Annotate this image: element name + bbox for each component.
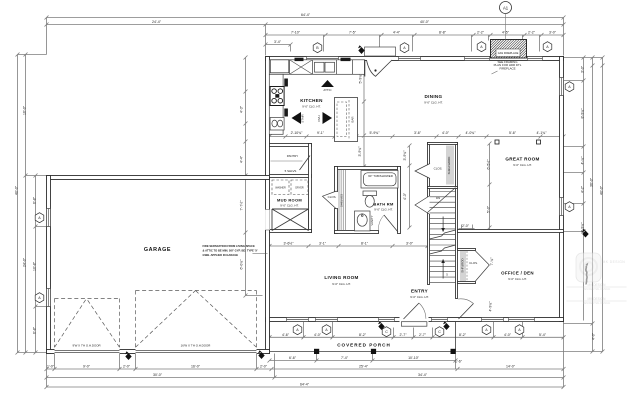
- wall stairs closet north: [428, 143, 458, 145]
- dim row kitchen-greatroom interior: [268, 135, 566, 139]
- svg-text:10'-8": 10'-8": [33, 261, 37, 271]
- dim row 30'-0" 34'-4": [45, 354, 566, 380]
- svg-text:FIREPLACE: FIREPLACE: [499, 66, 515, 70]
- svg-text:OVH: OVH: [317, 115, 321, 121]
- svg-text:GARAGE: GARAGE: [144, 247, 171, 253]
- svg-text:KITCHEN: KITCHEN: [300, 98, 323, 103]
- svg-text:BATH RM: BATH RM: [373, 202, 394, 207]
- kitchen west counter: [269, 74, 283, 134]
- svg-text:2'-7": 2'-7": [400, 333, 408, 337]
- svg-text:GWB. APPLIED IN GARAGE: GWB. APPLIED IN GARAGE: [203, 253, 239, 257]
- svg-text:4'-6": 4'-6": [282, 333, 290, 337]
- svg-text:16'-0": 16'-0": [23, 105, 27, 115]
- svg-text:3'-9¾": 3'-9¾": [403, 150, 407, 161]
- svg-text:MK DESIGN: MK DESIGN: [603, 260, 626, 264]
- dim line top 3'-4": [264, 43, 293, 52]
- svg-text:40'-0": 40'-0": [600, 185, 604, 195]
- base cabinet sink low: [270, 118, 284, 131]
- stairs direction arrow: [442, 217, 444, 279]
- stairs closet shelf strip: [447, 146, 453, 185]
- front door opening: [400, 317, 429, 322]
- window garage west 2: [47, 289, 51, 307]
- section diamond markers: [125, 45, 589, 360]
- window north kitchen: [307, 57, 339, 61]
- entry closet shelf strip: [461, 251, 467, 281]
- window north greatroom: [528, 57, 543, 61]
- svg-text:2'-7": 2'-7": [419, 333, 427, 337]
- svg-text:10'-10": 10'-10": [408, 356, 420, 360]
- svg-text:34'-4": 34'-4": [418, 373, 428, 377]
- bath vanity: [355, 211, 371, 231]
- svg-text:DRYER: DRYER: [295, 187, 304, 190]
- svg-text:1'-6": 1'-6": [455, 360, 463, 364]
- dim line greatroom x489: [488, 142, 492, 232]
- svg-text:40'-0": 40'-0": [15, 185, 19, 195]
- posts great room opening: [495, 140, 499, 144]
- svg-text:4'-4": 4'-4": [240, 155, 244, 163]
- svg-text:4'-3": 4'-3": [403, 192, 407, 200]
- wall bath west lower: [335, 209, 338, 234]
- window south living 2: [316, 318, 338, 322]
- dim line garage interior x245: [244, 56, 263, 298]
- dim line hall x409: [408, 144, 412, 230]
- svg-text:4'-0": 4'-0": [314, 333, 322, 337]
- kitchen range top X box: [290, 60, 313, 75]
- dim row 25'-4" 14'-0": [272, 367, 566, 371]
- svg-text:2'-2": 2'-2": [477, 30, 485, 34]
- fire note leader: [253, 253, 268, 255]
- kitchen island bar: [335, 98, 358, 142]
- svg-text:9'-0" CLG. HT.: 9'-0" CLG. HT.: [302, 105, 321, 109]
- west wall door gap at mudroom: [265, 210, 270, 231]
- garage door dashed outline 9ft: [55, 291, 257, 348]
- front door leaf and swing: [404, 303, 426, 319]
- window south sidelight right: [432, 318, 448, 322]
- svg-text:CLOS.: CLOS.: [328, 195, 337, 199]
- svg-text:40'-0": 40'-0": [420, 20, 430, 24]
- svg-text:COVERED PORCH: COVERED PORCH: [337, 342, 391, 347]
- svg-text:4'-0": 4'-0": [442, 131, 450, 135]
- svg-text:36'-0": 36'-0": [590, 177, 594, 187]
- window south office 2: [509, 318, 535, 322]
- dim row garage doors: [45, 354, 274, 372]
- svg-text:OFFICE / DEN: OFFICE / DEN: [501, 271, 534, 276]
- svg-text:9'W X 7'H O.H.DOOR: 9'W X 7'H O.H.DOOR: [72, 343, 100, 347]
- stairs break line: [428, 188, 456, 213]
- svg-text:60" TUB/SHOWER: 60" TUB/SHOWER: [368, 174, 393, 178]
- svg-text:DN: DN: [436, 196, 440, 200]
- svg-text:64'-4": 64'-4": [300, 382, 310, 386]
- wall entry closet top: [458, 249, 476, 251]
- svg-text:GREAT ROOM: GREAT ROOM: [505, 157, 539, 162]
- left extension at top of plan: [16, 53, 47, 57]
- window south sidelight left: [379, 318, 395, 322]
- wall mudroom south / living north: [270, 230, 312, 233]
- svg-text:7'-4": 7'-4": [341, 356, 349, 360]
- svg-text:4'-1¾": 4'-1¾": [537, 131, 548, 135]
- svg-text:6'-6": 6'-6": [289, 356, 297, 360]
- wall west (house/living): [266, 57, 270, 354]
- svg-text:A1: A1: [503, 5, 509, 10]
- wall north (house): [266, 57, 564, 61]
- svg-text:5'-4": 5'-4": [539, 333, 547, 337]
- porch slab edge: [270, 322, 456, 352]
- dim line top 64'-4": [45, 16, 566, 56]
- svg-text:BAR: BAR: [350, 117, 354, 123]
- svg-text:9'-0" CLG. HT.: 9'-0" CLG. HT.: [374, 208, 393, 212]
- pantry door diagonal: [300, 156, 311, 171]
- wall stairs block west: [428, 143, 430, 285]
- office door leaf and swing: [458, 299, 473, 319]
- svg-text:2'-0": 2'-0": [462, 224, 470, 228]
- svg-text:7'-5": 7'-5": [349, 30, 357, 34]
- svg-text:5'-9¾": 5'-9¾": [370, 131, 381, 135]
- svg-text:7'-10": 7'-10": [291, 30, 301, 34]
- dim line left garage segments: [18, 174, 47, 355]
- wall east (house): [560, 57, 564, 322]
- svg-text:4'-0": 4'-0": [504, 333, 512, 337]
- svg-text:9'-0" CLG. HT.: 9'-0" CLG. HT.: [513, 163, 532, 167]
- entry closet chevron door: [476, 251, 490, 281]
- svg-text:6'-5½": 6'-5½": [487, 159, 491, 170]
- svg-text:9'-0" CLG. HT.: 9'-0" CLG. HT.: [280, 204, 299, 208]
- svg-text:SHELF&ROD: SHELF&ROD: [447, 157, 451, 175]
- porch post middle: [371, 349, 376, 354]
- svg-text:PANTRY: PANTRY: [287, 154, 299, 158]
- svg-text:DINING: DINING: [425, 94, 443, 99]
- dim row living room interior: [268, 244, 430, 248]
- svg-text:64'-4": 64'-4": [301, 13, 311, 17]
- svg-text:C: C: [385, 330, 388, 334]
- svg-text:4'-3": 4'-3": [240, 105, 244, 113]
- svg-text:SHF&ROD: SHF&ROD: [460, 258, 464, 272]
- wall garage south: [47, 350, 270, 354]
- svg-text:ATTIC: ATTIC: [323, 88, 331, 92]
- porch post left: [314, 349, 319, 354]
- svg-text:CLOS.: CLOS.: [434, 167, 443, 171]
- window garage west 1: [47, 209, 51, 227]
- garage fire note: [203, 244, 259, 257]
- svg-text:4'-9¾": 4'-9¾": [489, 301, 493, 312]
- kitchen cabinet tags: [295, 58, 304, 61]
- svg-text:9'-0" CLG. HT.: 9'-0" CLG. HT.: [410, 295, 429, 299]
- hexagon window tags: [35, 42, 574, 337]
- svg-text:2'-10¾": 2'-10¾": [291, 131, 304, 135]
- svg-text:MUD ROOM: MUD ROOM: [277, 198, 302, 203]
- svg-text:5'-0": 5'-0": [487, 205, 491, 213]
- bath linen closet shelves: [339, 170, 345, 232]
- svg-text:4'-¾": 4'-¾": [581, 156, 585, 165]
- porch post right: [451, 349, 456, 354]
- wall pantry/mudroom divider: [270, 175, 312, 178]
- dim line top window row: [264, 33, 566, 52]
- wall office north: [458, 230, 564, 233]
- svg-text:3'-0": 3'-0": [581, 65, 585, 73]
- range/oven: [270, 87, 284, 106]
- wall bath east: [398, 167, 401, 234]
- dim line top 24'-4" / 40'-0": [45, 23, 566, 56]
- stairs closet chevron doors: [415, 164, 430, 215]
- svg-text:GAS FIREPLACE: GAS FIREPLACE: [498, 51, 519, 55]
- svg-text:25'-4": 25'-4": [359, 364, 369, 368]
- watermark text rows: [567, 283, 627, 305]
- garage door openings: [55, 349, 120, 354]
- window south office 1: [482, 318, 504, 322]
- wall bath south: [335, 231, 379, 234]
- svg-text:4'-0¾": 4'-0¾": [466, 131, 477, 135]
- svg-text:8'-1": 8'-1": [361, 241, 369, 245]
- svg-text:ENTRY: ENTRY: [411, 289, 428, 294]
- dim stub kitchen x363: [362, 61, 366, 169]
- dining angled corner cabinet: [367, 60, 393, 76]
- mudroom double door symbol: [272, 209, 309, 231]
- svg-text:5 SHLVS: 5 SHLVS: [285, 169, 297, 173]
- washer dryer dashed: [272, 180, 308, 195]
- svg-text:24'-4": 24'-4": [152, 20, 162, 24]
- svg-text:16'W X 7'H O.H.DOOR: 16'W X 7'H O.H.DOOR: [181, 343, 211, 347]
- svg-text:2'-2": 2'-2": [528, 30, 536, 34]
- window east 2: [560, 198, 564, 216]
- svg-text:3'-6½": 3'-6½": [284, 241, 295, 245]
- refrigerator: [270, 60, 289, 73]
- window south living 1: [287, 318, 309, 322]
- wall stairs block east: [456, 143, 458, 299]
- svg-text:CLOS.: CLOS.: [469, 261, 478, 265]
- svg-text:MK DESIGN: MK DESIGN: [588, 283, 607, 287]
- svg-text:5'-6": 5'-6": [509, 131, 517, 135]
- kitchen top counter: [269, 60, 364, 75]
- svg-text:RESIDENTIAL DESIGN: RESIDENTIAL DESIGN: [583, 301, 611, 305]
- dim stub stairs 2'-0": [459, 225, 475, 233]
- svg-text:9'-0": 9'-0": [83, 364, 91, 368]
- svg-text:VANITY: VANITY: [370, 215, 374, 225]
- svg-text:7'-7½": 7'-7½": [240, 200, 244, 211]
- svg-text:RESIDENTIAL DESIGN: RESIDENTIAL DESIGN: [583, 287, 611, 291]
- hall closet chevron doors: [323, 191, 337, 209]
- flue callout A1: [500, 2, 512, 14]
- watermark logo: [576, 253, 625, 285]
- kitchen-dining wall stub: [364, 60, 366, 77]
- dim row porch bottom: [268, 352, 458, 370]
- svg-text:MK DESIGN: MK DESIGN: [588, 297, 607, 301]
- svg-text:LIVING ROOM: LIVING ROOM: [324, 275, 358, 280]
- bath door leaf and swing: [378, 215, 398, 232]
- bay window bump: [365, 47, 396, 56]
- wall bath west upper: [335, 167, 338, 192]
- dim line right 36'-0": [591, 56, 595, 354]
- wall bath block north: [335, 167, 401, 170]
- svg-text:SHELVES: SHELVES: [340, 194, 344, 207]
- bath tub: [361, 171, 398, 189]
- dim line left 40'-0": [17, 55, 19, 353]
- svg-text:8'-2": 8'-2": [459, 333, 467, 337]
- dim row 64'-4" bottom: [45, 322, 566, 390]
- wall mudroom east: [309, 144, 312, 233]
- stairs treads: [430, 192, 456, 283]
- dim line right 40'-0": [456, 56, 605, 354]
- svg-text:9'-0" CLG. HT.: 9'-0" CLG. HT.: [424, 101, 443, 105]
- svg-text:WASHER: WASHER: [275, 187, 286, 190]
- svg-text:14'-0": 14'-0": [506, 364, 516, 368]
- svg-text:4'-2": 4'-2": [581, 185, 585, 193]
- attic access arrow: [321, 80, 334, 87]
- svg-text:& ATTIC TO BE MIN. 5/8" GYP. B: & ATTIC TO BE MIN. 5/8" GYP. BD. TYPE 'X…: [203, 248, 259, 252]
- dim row south wall windows: [268, 322, 566, 339]
- wall garage west: [47, 176, 51, 354]
- svg-text:6'-0¾": 6'-0¾": [240, 259, 244, 270]
- svg-text:2'-0": 2'-0": [123, 364, 131, 368]
- window north dining2: [465, 57, 490, 61]
- window east 1: [560, 78, 564, 96]
- svg-text:FIRE SEPARATION FROM LIVING SP: FIRE SEPARATION FROM LIVING SPACE: [203, 244, 255, 248]
- svg-text:24'-0": 24'-0": [23, 257, 27, 267]
- svg-text:4'-5": 4'-5": [502, 30, 510, 34]
- svg-text:8'-9¾": 8'-9¾": [581, 108, 585, 119]
- svg-text:2'-0": 2'-0": [260, 364, 268, 368]
- dim line right inner segments: [564, 56, 605, 324]
- dim line left 16'-0" / 24'-0": [16, 55, 28, 355]
- svg-text:8'-2": 8'-2": [359, 333, 367, 337]
- bath toilet: [363, 191, 377, 207]
- svg-text:6'-8": 6'-8": [33, 196, 37, 204]
- svg-text:1'-0": 1'-0": [47, 364, 55, 368]
- pantry shelf line: [271, 160, 303, 162]
- svg-text:3'-4": 3'-4": [274, 40, 282, 44]
- kitchen arrow left: [292, 112, 302, 124]
- svg-text:8'-8": 8'-8": [439, 30, 447, 34]
- wall stairs closet south: [428, 187, 458, 189]
- garage door dashed outline 16ft: [136, 291, 257, 348]
- svg-text:9'-0" CLG. HT.: 9'-0" CLG. HT.: [332, 282, 351, 286]
- svg-text:4'-0": 4'-0": [592, 332, 596, 340]
- svg-text:3'-9¾": 3'-9¾": [358, 146, 362, 157]
- wall entry closet bottom: [458, 282, 476, 284]
- svg-text:3'-1": 3'-1": [319, 241, 327, 245]
- svg-text:3'-0": 3'-0": [406, 241, 414, 245]
- kitchen arrow right: [323, 112, 333, 124]
- window north dining: [399, 57, 421, 61]
- svg-text:4'-4": 4'-4": [393, 30, 401, 34]
- wall south (house): [266, 318, 564, 322]
- wall pantry north: [270, 144, 312, 147]
- kitchen double sink: [315, 62, 325, 72]
- fireplace hatched: [491, 40, 527, 59]
- svg-text:6'-8": 6'-8": [33, 326, 37, 334]
- svg-text:30'-0": 30'-0": [153, 373, 163, 377]
- wall garage north: [47, 176, 270, 180]
- svg-text:7'-¾": 7'-¾": [490, 257, 494, 266]
- svg-text:9'-1": 9'-1": [317, 131, 325, 135]
- svg-text:9'-0" CLG. HT.: 9'-0" CLG. HT.: [508, 277, 527, 281]
- svg-text:3'-0": 3'-0": [549, 30, 557, 34]
- svg-text:C: C: [438, 330, 441, 334]
- svg-text:16'-0": 16'-0": [191, 364, 201, 368]
- entry stoop: [401, 322, 427, 327]
- svg-text:STAIR: STAIR: [301, 114, 305, 122]
- svg-text:3'-6": 3'-6": [414, 131, 422, 135]
